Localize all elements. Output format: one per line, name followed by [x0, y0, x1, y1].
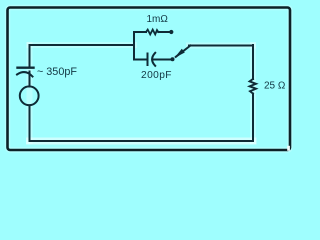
wire: top branch left segment	[134, 31, 146, 33]
resistor 25Ω zigzag	[250, 79, 256, 94]
switch arrowhead	[174, 49, 185, 58]
capacitor 350pF curved bottom plate	[17, 72, 33, 76]
wire: top branch right segment to contact	[158, 31, 170, 33]
wire: left bar of parallel network	[133, 32, 135, 60]
svg-text:200pF: 200pF	[141, 70, 172, 81]
capacitor 200pF straight plate	[147, 54, 149, 66]
wire: top-right horizontal (switch to corner)	[189, 45, 253, 47]
resistor 1mΩ zigzag	[146, 30, 158, 35]
jpeg halo glow under wires	[8, 8, 291, 151]
switch blade S1	[176, 46, 191, 57]
white notch artifact bottom-right	[287, 146, 290, 151]
wire: bottom branch left segment	[134, 59, 148, 61]
wire: left vertical mid (capacitor to source)	[29, 72, 31, 87]
svg-text:25 Ω: 25 Ω	[264, 81, 286, 92]
wire: left vertical top (corner to capacitor)	[29, 45, 31, 67]
wire: right vertical lower	[252, 94, 254, 141]
wire: right vertical upper	[252, 45, 254, 79]
contact dot top (resistor branch)	[169, 30, 173, 34]
wire: top-left horizontal (source to network)	[30, 44, 135, 46]
capacitor 350pF top plate	[18, 66, 34, 68]
contact dot bottom (capacitor branch)	[171, 57, 175, 61]
wire: left vertical bottom (source to corner)	[29, 105, 31, 141]
wire: bottom horizontal	[30, 140, 254, 142]
source circle V1	[20, 86, 39, 105]
capacitor 200pF curved plate	[152, 53, 155, 66]
svg-text:1mΩ: 1mΩ	[147, 14, 169, 25]
svg-text:~ 350pF: ~ 350pF	[37, 66, 77, 78]
border frame	[8, 8, 291, 151]
wire: bottom branch right segment to contact	[154, 59, 172, 61]
